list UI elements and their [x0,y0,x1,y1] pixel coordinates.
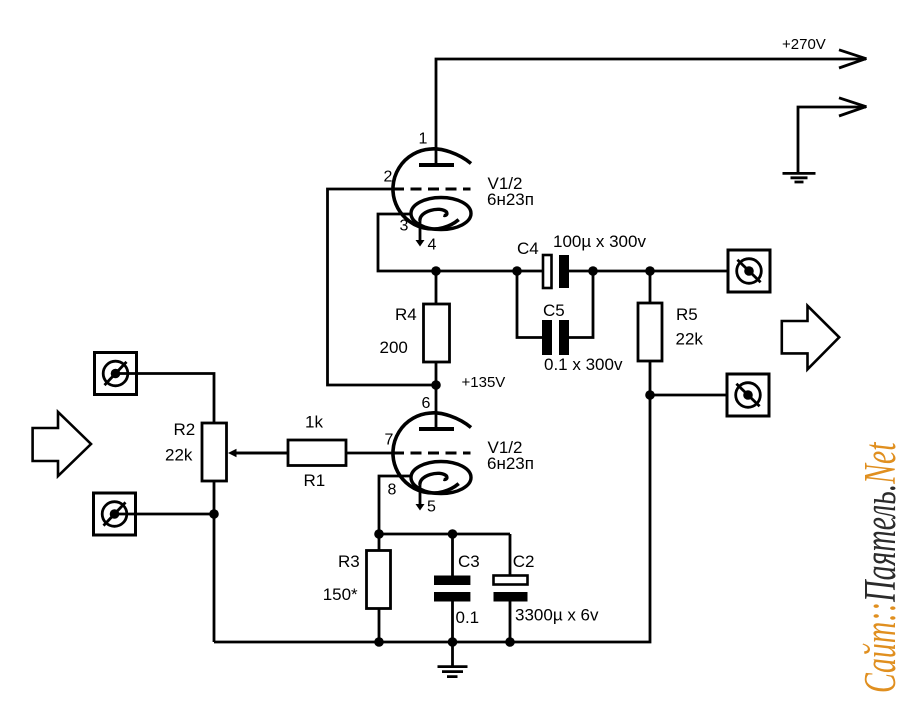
svg-text:0.1: 0.1 [456,608,480,627]
svg-text:C4: C4 [517,239,539,258]
svg-text:R4: R4 [395,305,417,324]
svg-text:1: 1 [419,131,428,148]
svg-text:6: 6 [422,395,431,412]
svg-text:7: 7 [385,432,394,449]
svg-text:150*: 150* [323,585,358,604]
svg-text:6н23п: 6н23п [487,454,534,473]
svg-text:6н23п: 6н23п [487,190,534,209]
svg-text:+270V: +270V [782,36,826,53]
svg-text:22k: 22k [676,330,704,349]
svg-text:2: 2 [384,169,393,186]
svg-text:Сайт::Паятель.Net: Сайт::Паятель.Net [856,441,897,693]
svg-text:R3: R3 [338,552,360,571]
svg-text:0.1 x 300v: 0.1 x 300v [544,355,623,374]
svg-text:5: 5 [427,499,436,516]
svg-text:C3: C3 [458,552,480,571]
svg-text:4: 4 [428,237,437,254]
svg-text:3300µ x 6v: 3300µ x 6v [515,606,599,625]
svg-text:R1: R1 [304,471,326,490]
svg-text:200: 200 [380,338,408,357]
svg-text:1k: 1k [305,413,323,432]
svg-text:8: 8 [388,482,397,499]
svg-text:22k: 22k [165,446,193,465]
svg-text:C5: C5 [543,301,565,320]
svg-text:+135V: +135V [462,374,506,391]
svg-text:3: 3 [400,218,409,235]
svg-text:R2: R2 [174,420,196,439]
svg-text:C2: C2 [513,552,535,571]
svg-text:100µ x 300v: 100µ x 300v [553,232,646,251]
svg-text:R5: R5 [676,305,698,324]
